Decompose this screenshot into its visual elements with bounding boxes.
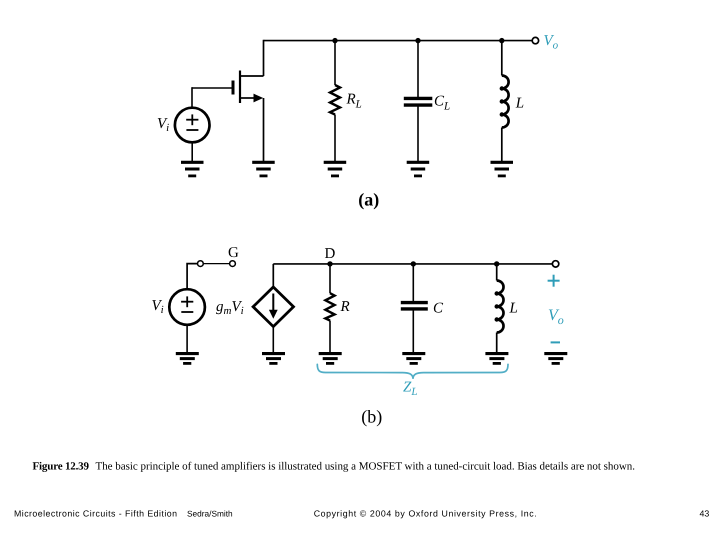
label V_i (a) [157, 116, 169, 134]
wire rail (b) [273, 263, 552, 265]
wire C top (b) [412, 264, 414, 301]
node junction dot RL (a) [332, 38, 337, 43]
wire L bottom (b) [496, 333, 498, 353]
svg-text:L: L [509, 300, 518, 316]
ground under L (a) [491, 162, 514, 176]
footer copyright [314, 509, 537, 519]
wire Vi bottom (a) [191, 142, 193, 162]
terminal left of G (b) [198, 261, 204, 267]
wire gate (a) [192, 87, 232, 89]
svg-text:C: C [433, 300, 444, 316]
label L (a) [515, 95, 524, 111]
inductor L (b) [495, 281, 504, 333]
footer page number 43 [700, 509, 710, 519]
svg-text:(a): (a) [358, 189, 379, 209]
wire L bottom (a) [501, 128, 503, 162]
footer book title [14, 509, 177, 519]
source V_i (b) [169, 289, 205, 325]
wire RL bottom (a) [334, 115, 336, 162]
capacitor C (b) [401, 303, 428, 309]
label minus sign (b) [551, 341, 560, 343]
svg-text:G: G [228, 245, 239, 261]
label D [325, 246, 336, 262]
wire between terminals (b) [203, 263, 229, 265]
ground under Vi (b) [176, 354, 199, 364]
label C (b) [433, 300, 444, 316]
label V_i (b) [152, 298, 164, 316]
svg-text:Sedra/Smith: Sedra/Smith [187, 509, 233, 519]
wire drain vertical (a) [263, 40, 265, 76]
wire Vi top (a) [191, 87, 193, 108]
ground under RL (a) [324, 162, 347, 176]
transistor Q1 (MOSFET) [233, 71, 264, 104]
svg-text:Copyright © 2004 by Oxford Uni: Copyright © 2004 by Oxford University Pr… [314, 509, 537, 519]
svg-text:The basic principle of tuned a: The basic principle of tuned amplifiers … [96, 460, 636, 472]
ground under Vi (a) [181, 162, 204, 176]
label R (b) [340, 299, 350, 315]
svg-text:D: D [325, 246, 336, 262]
dependent source g_m V_i (diamond) [253, 287, 293, 327]
node junction dot L (a) [499, 38, 504, 43]
terminal Vo (a) [532, 37, 538, 43]
wire L top (a) [501, 41, 503, 76]
svg-text:L: L [515, 95, 524, 111]
label V_o (a) [544, 33, 559, 52]
caption Figure 12.39 [33, 460, 636, 472]
brace Z_L [317, 364, 508, 379]
resistor RL [330, 85, 340, 115]
svg-text:Microelectronic Circuits - Fif: Microelectronic Circuits - Fifth Edition [14, 509, 177, 519]
svg-text:Figure 12.39: Figure 12.39 [33, 460, 90, 472]
wire L top (b) [496, 264, 498, 281]
source V_i (a) [175, 108, 210, 143]
wire R top (b) [329, 264, 331, 293]
capacitor CL [404, 98, 433, 105]
wire dependent source bottom (b) [272, 327, 274, 353]
label V_o (b) [548, 307, 564, 327]
node junction dot C (b) [411, 261, 416, 266]
label R_L [346, 91, 362, 110]
node junction dot L (b) [494, 261, 499, 266]
label plus sign (b) [548, 275, 560, 287]
wire R bottom (b) [329, 321, 331, 353]
wire Vi bottom (b) [186, 325, 188, 353]
label (a) [358, 189, 379, 209]
ground under R (b) [319, 354, 342, 364]
ground under CL (a) [407, 162, 430, 176]
wire Vi top (b) [187, 264, 197, 290]
label G [228, 245, 239, 261]
wire top rail (a) [264, 40, 533, 42]
label g_m V_i [216, 299, 244, 317]
label (b) [361, 407, 382, 427]
wire source vertical (a) [263, 98, 265, 162]
ground under Vo (b) [544, 354, 567, 364]
wire dependent source top (b) [272, 264, 274, 288]
ground under dependent source (b) [262, 354, 285, 364]
label C_L [434, 93, 450, 112]
wire RL top (a) [334, 41, 336, 85]
wire C bottom (b) [412, 310, 414, 352]
terminal G (b) [230, 261, 236, 267]
resistor R (b) [325, 293, 334, 320]
label Z_L [403, 380, 417, 399]
inductor L (a) [500, 76, 509, 128]
node junction dot CL (a) [415, 38, 420, 43]
svg-text:43: 43 [700, 509, 710, 519]
svg-text:(b): (b) [361, 407, 382, 427]
terminal Vo (b) [552, 261, 558, 267]
svg-text:R: R [340, 299, 350, 315]
ground under MOSFET source (a) [252, 162, 275, 176]
ground under L (b) [485, 354, 508, 364]
wire CL top (a) [417, 41, 419, 97]
wire CL bottom (a) [417, 107, 419, 162]
footer authors [187, 509, 233, 519]
node D junction dot [327, 261, 332, 266]
ground under C (b) [402, 354, 425, 364]
label L (b) [509, 300, 518, 316]
